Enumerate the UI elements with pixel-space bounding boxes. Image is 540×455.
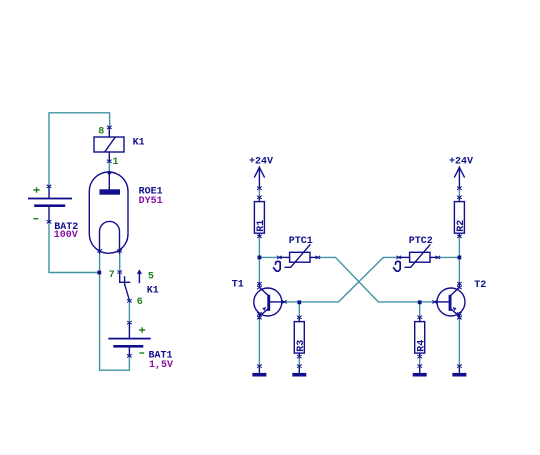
svg-text:7: 7 <box>109 270 115 281</box>
svg-text:100V: 100V <box>54 230 78 241</box>
svg-text:T2: T2 <box>474 280 486 291</box>
svg-text:T1: T1 <box>232 280 244 291</box>
svg-text:PTC2: PTC2 <box>409 236 433 247</box>
svg-text:R4: R4 <box>416 340 427 352</box>
svg-text:1: 1 <box>113 157 119 168</box>
svg-text:8: 8 <box>98 127 104 138</box>
svg-text:+24V: +24V <box>249 156 273 167</box>
svg-text:5: 5 <box>148 272 154 283</box>
svg-text:K1: K1 <box>133 138 145 149</box>
svg-text:K1: K1 <box>147 285 159 296</box>
svg-text:DY51: DY51 <box>139 196 163 207</box>
svg-text:R2: R2 <box>456 220 467 232</box>
svg-text:+24V: +24V <box>449 156 473 167</box>
svg-text:PTC1: PTC1 <box>289 236 313 247</box>
svg-text:R3: R3 <box>296 340 307 352</box>
svg-text:R1: R1 <box>256 220 267 232</box>
svg-text:6: 6 <box>137 297 143 308</box>
svg-text:1,5V: 1,5V <box>149 360 173 371</box>
